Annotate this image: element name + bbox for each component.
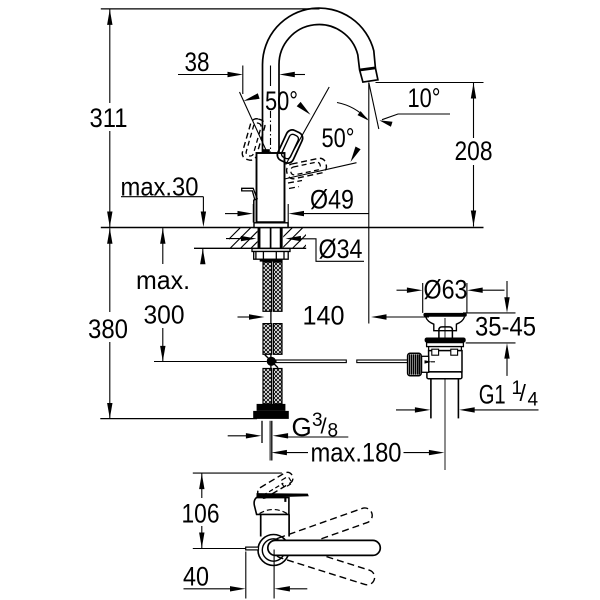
svg-text:/: / <box>520 380 527 406</box>
svg-text:40: 40 <box>183 562 209 592</box>
supply connection tubes G3/8 <box>261 421 263 443</box>
braided supply hoses section 3 <box>263 369 272 404</box>
dimension G 3/8 line and arrows <box>228 435 248 437</box>
dashed lever down position outer contour <box>287 158 327 179</box>
cartridge housing side view <box>254 498 289 515</box>
svg-text:Ø34: Ø34 <box>319 234 363 264</box>
dimension 311 vertical line <box>109 9 111 103</box>
svg-text:max.: max. <box>136 265 190 295</box>
faucet centreline dash-dot <box>270 111 272 227</box>
top extension line 208 <box>376 82 484 84</box>
braided supply hoses section 1 <box>263 262 272 311</box>
extension lines diameter 63 <box>422 283 424 313</box>
rod tip reference line <box>154 361 267 363</box>
pull rod side view <box>246 547 259 550</box>
dimension diameter 63 <box>397 289 410 291</box>
svg-text:38: 38 <box>185 47 210 77</box>
dashed lever open position (left) inner contour <box>246 123 261 156</box>
extension line left of 38 <box>242 66 244 95</box>
drain body notch left <box>432 349 439 355</box>
dimension G1 1/4 <box>396 409 417 411</box>
svg-text:Ø49: Ø49 <box>310 185 354 215</box>
svg-text:311: 311 <box>90 103 128 133</box>
svg-text:300: 300 <box>144 300 185 330</box>
horizontal pop-up rod right segment <box>357 360 409 363</box>
svg-text:50°: 50° <box>265 86 298 116</box>
pull rod between hose sections <box>270 311 272 323</box>
dimension 106 <box>201 473 203 498</box>
solid lever outer contour <box>277 130 302 163</box>
pop-up rod joint <box>267 357 276 366</box>
slanted spout axis line <box>369 83 379 130</box>
pull rod vertical <box>253 200 255 223</box>
svg-text:10°: 10° <box>408 83 441 113</box>
aerator band on spout tip <box>360 68 376 70</box>
body column side view <box>260 514 262 536</box>
counter bottom surface line <box>194 247 306 249</box>
threaded shank walls <box>258 228 261 249</box>
pivot pin <box>425 360 433 363</box>
svg-text:G1: G1 <box>479 380 506 410</box>
top extent line of spout height <box>101 8 320 10</box>
drain locknut lower <box>429 347 462 351</box>
knob connector <box>422 356 429 372</box>
dimension 380 vertical <box>109 228 111 312</box>
svg-text:max.180: max.180 <box>311 438 402 468</box>
drain main body <box>429 351 462 372</box>
arc of 10 deg <box>337 103 368 120</box>
dashed lever swung down <box>273 541 377 587</box>
nut lower ring <box>260 259 283 261</box>
faucet body <box>257 153 285 223</box>
extension line 35-45 bottom <box>466 342 516 344</box>
extension lines diameter 49 <box>252 204 254 223</box>
pull rod knob <box>242 188 258 200</box>
base escutcheon flange <box>254 223 288 228</box>
drain locknut upper <box>427 343 464 347</box>
hose end fitting nuts <box>257 404 286 411</box>
dashed lever down position inner contour <box>291 162 321 175</box>
counter cross-section hatching left patch <box>220 228 323 248</box>
drain seal collar <box>425 338 466 343</box>
lever bar plan view <box>268 540 381 555</box>
arc arrowhead on lever down axis <box>351 147 361 163</box>
dashes toward pivot <box>288 181 302 184</box>
dimension max.30 leader and arrows <box>121 196 203 198</box>
dimension 208 vertical <box>473 83 475 139</box>
dimension diameter 49 <box>225 213 240 215</box>
dashed lever open position (left) outer contour <box>242 119 265 160</box>
svg-text:/: / <box>321 414 328 439</box>
drain stem block <box>439 327 453 338</box>
drain bottom flange <box>427 372 462 379</box>
arc arrowhead on open lever axis <box>244 93 260 101</box>
spout tube outline <box>263 8 378 153</box>
dimension 38 lines and arrows <box>178 74 230 76</box>
dimension 140 <box>238 316 252 318</box>
dashed spout inner line <box>263 483 284 495</box>
solid lever inner contour <box>282 134 299 158</box>
mounting washer <box>252 249 290 252</box>
extension line centerline stub <box>270 66 272 87</box>
side view top extension line <box>193 472 282 474</box>
counter cross-section hatching right patch <box>220 228 323 248</box>
hidden dome dashed <box>260 510 288 514</box>
bottom extent line 380 <box>100 418 257 420</box>
svg-text:380: 380 <box>88 314 128 344</box>
mounting hex nut <box>254 252 289 260</box>
svg-text:208: 208 <box>455 136 493 166</box>
leader of 10 deg <box>382 114 450 120</box>
dark stub above body <box>263 149 270 153</box>
knurled rod knob <box>408 353 422 375</box>
dimension 35-45 <box>506 281 508 299</box>
reference line open lever axis <box>240 92 267 150</box>
base circle outer <box>258 535 289 566</box>
drain bell <box>426 317 465 331</box>
base circle inner <box>262 539 284 561</box>
dashed spout aerator detail <box>281 477 291 487</box>
dimension 40 <box>184 588 233 590</box>
dimension diameter 34 <box>226 238 243 240</box>
reference line closed lever axis <box>286 87 329 165</box>
vertical reference line from spout tip <box>368 83 370 324</box>
leader to label diameter 34 <box>299 239 364 261</box>
svg-text:140: 140 <box>303 301 345 331</box>
dimension max.180 <box>271 450 287 455</box>
svg-text:106: 106 <box>182 499 220 529</box>
svg-text:4: 4 <box>528 390 539 411</box>
reference line lever down axis <box>285 163 357 179</box>
drain tailpipe walls <box>430 379 432 419</box>
dimension max.300 <box>162 228 164 264</box>
handle bar side view <box>257 493 309 498</box>
counter top surface line <box>101 227 484 229</box>
svg-text:50°: 50° <box>322 123 355 153</box>
drain body notch right <box>451 349 458 355</box>
side view bottom extension line <box>193 548 246 550</box>
arc arrowhead on closed lever axis <box>297 102 311 115</box>
svg-text:max.30: max.30 <box>121 172 199 202</box>
svg-text:G: G <box>292 412 312 442</box>
svg-text:35-45: 35-45 <box>475 312 536 342</box>
braided supply hoses section 2 <box>263 324 272 355</box>
pull rod inside shank <box>270 228 272 263</box>
drain centerline <box>444 318 446 470</box>
dashed lever swung up <box>271 506 374 555</box>
extension lines 40 <box>245 552 247 599</box>
dashed spout side view outer <box>258 472 293 498</box>
extension line 35-45 top <box>463 312 516 314</box>
horizontal pop-up rod left segment <box>276 360 346 363</box>
drain flange top bar <box>423 313 466 317</box>
svg-text:Ø63: Ø63 <box>424 275 468 305</box>
